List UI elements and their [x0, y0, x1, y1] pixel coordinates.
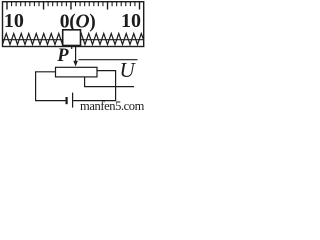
wire axis through spring [3, 39, 144, 41]
svg-text:manfen5.com: manfen5.com [80, 99, 145, 110]
svg-text:U: U [120, 58, 137, 82]
wire: rheostat bottom tap (lower U terminal) [85, 77, 134, 87]
ruler major ticks [7, 2, 140, 10]
slider box on spring [63, 30, 81, 46]
rheostat body R [56, 67, 98, 77]
svg-text:10: 10 [121, 10, 141, 32]
pointer arrow [75, 47, 77, 62]
ruler frame [3, 2, 144, 47]
ruler minor ticks [12, 2, 135, 6]
svg-text:P: P [56, 46, 69, 66]
battery negative plate (short) [65, 97, 67, 104]
svg-text:10: 10 [4, 10, 24, 32]
slider stem [71, 46, 73, 50]
wire: rheostat left terminal [36, 72, 66, 101]
battery positive plate (long) [72, 93, 74, 108]
wire: battery to rheostat right terminal [73, 71, 115, 101]
spring (zigzag wire) [3, 34, 144, 45]
slider tap output wire (upper U terminal) [79, 59, 138, 61]
